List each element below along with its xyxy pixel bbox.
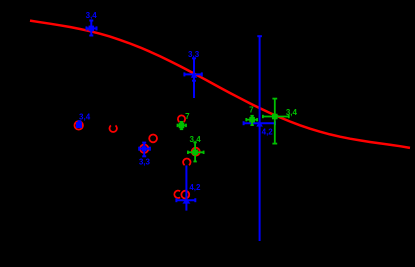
svg-text:3,4: 3,4 [79, 113, 91, 122]
svg-text:4,2: 4,2 [262, 128, 274, 137]
svg-text:3,3: 3,3 [139, 157, 151, 166]
svg-text:3,3: 3,3 [188, 50, 200, 59]
svg-text:7: 7 [185, 112, 190, 121]
circle C9 [181, 191, 189, 199]
svg-text:3,4: 3,4 [286, 108, 298, 117]
circle C4 [140, 145, 148, 153]
circle C1 [75, 121, 83, 129]
svg-text:3,4: 3,4 [86, 11, 98, 20]
bottom blue marker (4,2) line from circle C7 [176, 165, 195, 210]
circle C6 [192, 148, 200, 156]
lower blue marker (3,3) [139, 143, 150, 157]
circle C5 (gap at bottom) [178, 115, 185, 122]
circle C8 (gap at right) [174, 191, 180, 198]
blue triangle marker upper 4,2 [256, 121, 263, 127]
green marker upper 7 [246, 116, 257, 125]
circle C2 (gap at top) [110, 125, 117, 132]
green marker lower 7 [178, 122, 187, 129]
green marker lower 3,4 [188, 142, 204, 161]
long blue vertical line (upper 4,2 marker) [244, 36, 275, 241]
blue marker B (3,3) error bars [184, 58, 201, 98]
circle C7 (gap at bottom) [183, 159, 190, 166]
svg-text:4,2: 4,2 [189, 183, 201, 192]
blue marker A square [89, 26, 95, 32]
blue marker A (3,4) error bars [87, 21, 97, 36]
svg-text:3,4: 3,4 [190, 135, 202, 144]
lower-left blue marker (3,4) [78, 121, 82, 125]
predicted light curve (red) [30, 21, 410, 148]
circle C3 [149, 135, 157, 143]
blue marker B triangle [191, 72, 197, 78]
bottom blue triangle 4,2 [182, 198, 190, 203]
svg-text:7: 7 [249, 105, 254, 114]
green marker upper 3,4 [263, 99, 289, 144]
